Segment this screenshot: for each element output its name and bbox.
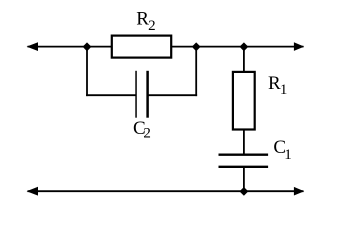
svg-text:1: 1: [284, 147, 292, 163]
svg-text:2: 2: [143, 126, 151, 142]
wire: left junction down to C2 branch: [86, 47, 88, 96]
wire: bottom rail: [28, 190, 304, 192]
node: junction dot B (right end of parallel RC): [192, 42, 201, 51]
arrowhead right of bottom rail: [294, 187, 304, 196]
svg-text:2: 2: [148, 18, 156, 34]
capacitor C2 left plate: [135, 71, 137, 118]
capacitor C2 right plate: [146, 71, 149, 118]
resistor R1 (body): [233, 72, 255, 130]
node: junction dot D (bottom rail / C1): [240, 187, 249, 196]
arrowhead left of top rail: [27, 42, 38, 51]
node: junction dot A (top-left, input side): [83, 42, 92, 51]
wire: C1 bottom plate to bottom rail: [243, 167, 245, 191]
wire: horizontal to C2 left plate: [86, 94, 136, 96]
resistor R2 (body): [112, 36, 171, 58]
wire: top rail down to R1: [243, 47, 245, 72]
node: junction dot C (top of R1 branch): [240, 42, 249, 51]
capacitor C1 top plate: [219, 154, 269, 156]
wire: C2 right plate to right junction: [148, 94, 198, 96]
capacitor C1 bottom plate: [219, 166, 269, 168]
svg-text:1: 1: [280, 82, 288, 98]
arrowhead left of bottom rail: [27, 187, 38, 196]
wire: R1 bottom to C1 top plate: [243, 130, 245, 155]
wire: right junction down to C2 branch: [195, 47, 197, 96]
wire: top rail: [28, 46, 304, 48]
arrowhead right of top rail: [294, 42, 304, 51]
